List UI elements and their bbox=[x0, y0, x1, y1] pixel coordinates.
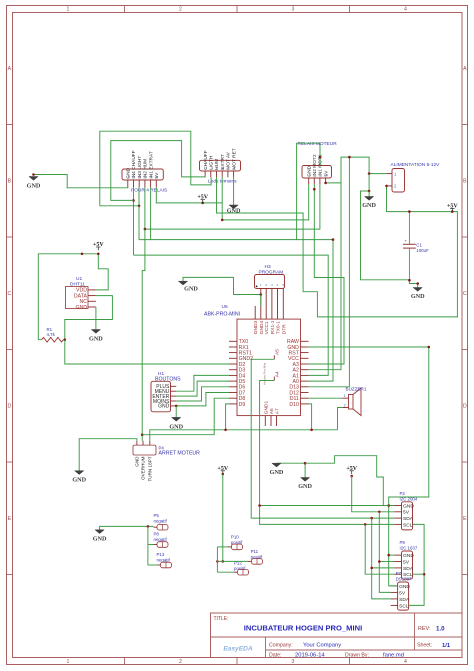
wire P4 TURN long run east bbox=[150, 430, 338, 441]
wire DHT11 GND down bbox=[95, 307, 97, 330]
svg-text:4: 4 bbox=[404, 659, 407, 665]
svg-text:Drawn By:: Drawn By: bbox=[345, 652, 369, 658]
junction gnd pair bbox=[304, 462, 307, 465]
svg-text:Arduino Pro Mini: Arduino Pro Mini bbox=[263, 362, 267, 385]
wire IN3 column down bbox=[138, 187, 140, 239]
svg-text:5V: 5V bbox=[403, 559, 410, 565]
svg-text:E: E bbox=[8, 516, 12, 522]
wire P4 OVERHUM to U5 D8 bbox=[142, 398, 229, 435]
svg-text:A6: A6 bbox=[269, 408, 275, 414]
junction +5V right bbox=[451, 210, 454, 213]
junction 5V branch bbox=[378, 511, 381, 514]
wire U5 A5 to SDA bus bbox=[251, 359, 394, 518]
svg-text:B: B bbox=[463, 179, 467, 185]
svg-text:A: A bbox=[8, 66, 12, 72]
wire gnd bus to P2 GND bbox=[260, 505, 395, 507]
svg-text:MOT AV: MOT AV bbox=[226, 151, 232, 169]
svg-text:GND3: GND3 bbox=[253, 321, 259, 335]
svg-text:Sheet:: Sheet: bbox=[417, 643, 432, 649]
svg-text:P13: P13 bbox=[157, 552, 165, 557]
svg-text:GND: GND bbox=[89, 336, 103, 343]
wire IN3 bus east then south to U5 A0 bbox=[139, 240, 333, 382]
ground symbol P4 bbox=[75, 471, 84, 475]
wire R1 to U5 D2 bbox=[65, 340, 229, 364]
junction H3 pin1 bbox=[260, 293, 263, 296]
junction D10 branch bbox=[310, 429, 313, 432]
wire positif riser bbox=[216, 547, 218, 572]
svg-text:P10: P10 bbox=[231, 535, 239, 540]
svg-text:P7: P7 bbox=[396, 571, 402, 576]
svg-text:GND: GND bbox=[135, 456, 140, 467]
svg-text:D: D bbox=[8, 404, 12, 410]
svg-text:LIGTH: LIGTH bbox=[209, 155, 215, 170]
junction relais IN2 bbox=[313, 188, 316, 191]
svg-text:2: 2 bbox=[344, 404, 346, 408]
wire gnd pair feed staircase bbox=[305, 456, 389, 506]
svg-text:D: D bbox=[463, 404, 467, 410]
wire H1 MENU stair to U5 D4 bbox=[176, 375, 229, 391]
header H3 PROGRAM bbox=[255, 275, 285, 289]
wire 5V pin to +5V rail bbox=[156, 187, 222, 203]
ground symbol H3 bbox=[178, 281, 187, 285]
connector ALIMENTATION 5-12V P1 bbox=[392, 169, 405, 193]
svg-text:I2C 1637: I2C 1637 bbox=[400, 546, 418, 551]
svg-text:D10: D10 bbox=[289, 402, 299, 408]
svg-text:A: A bbox=[463, 66, 467, 72]
svg-text:CHAUFF: CHAUFF bbox=[203, 150, 209, 170]
wire IN1 column down to bus bbox=[150, 187, 152, 239]
svg-text:GND: GND bbox=[399, 584, 410, 590]
junction alim pin2 bbox=[385, 185, 388, 188]
wire IN2 column down to relais IN1 bbox=[145, 184, 320, 229]
MCU U5 ABK-PRO-MINI Arduino Pro Mini bbox=[237, 319, 301, 416]
junction +5V leds bbox=[201, 202, 204, 205]
junction at GND top-left bbox=[32, 173, 35, 176]
ground symbol DHT11 bbox=[91, 330, 100, 334]
svg-text:GND: GND bbox=[72, 477, 86, 484]
svg-text:GND4: GND4 bbox=[259, 321, 265, 335]
wire GND to POUR4RELAIS pin1 bbox=[34, 175, 128, 188]
wire SDA south to P9 P7 bbox=[372, 518, 391, 599]
svg-text:+: + bbox=[405, 239, 408, 244]
svg-text:H3: H3 bbox=[265, 264, 271, 270]
wire SCL east loop P2 to P9 P7 bbox=[409, 524, 425, 605]
svg-text:negatif: negatif bbox=[154, 519, 168, 524]
junction SDA P9 bbox=[370, 567, 373, 570]
svg-text:1: 1 bbox=[344, 394, 346, 398]
svg-text:fane.md: fane.md bbox=[383, 652, 404, 658]
connector POUR 4 RELAIS bbox=[122, 169, 163, 180]
wire MOT RET to ground bbox=[233, 177, 235, 205]
svg-text:GND: GND bbox=[75, 305, 87, 311]
svg-text:5V: 5V bbox=[403, 510, 410, 516]
wire IN2 continue south jog to P4 OVERHUM bbox=[142, 229, 145, 441]
svg-text:4.7k: 4.7k bbox=[47, 332, 56, 337]
resistor R1 4.7k bbox=[42, 337, 64, 342]
U5 top pins bbox=[254, 306, 256, 319]
wire bundle to U5 D13 bbox=[309, 157, 350, 387]
svg-text:E: E bbox=[463, 516, 467, 522]
wire bundle to U5 A2 bbox=[309, 183, 342, 370]
junction bundle top bbox=[348, 156, 351, 159]
svg-text:C: C bbox=[463, 291, 467, 297]
wire H1 GND stair to U5 D7 bbox=[176, 393, 229, 406]
wire negatif riser bbox=[147, 526, 149, 565]
svg-text:2: 2 bbox=[179, 659, 182, 665]
junction gnd branch bbox=[416, 282, 419, 285]
svg-text:DS1307: DS1307 bbox=[396, 577, 412, 582]
svg-text:negatif: negatif bbox=[157, 558, 171, 563]
buzzer BUZZER1 bbox=[349, 395, 354, 410]
svg-text:GND: GND bbox=[169, 423, 183, 430]
junction P4 overhum branch bbox=[141, 433, 144, 436]
junction bus bbox=[332, 238, 335, 241]
junction +5V bottom bbox=[350, 475, 353, 478]
svg-text:GND: GND bbox=[184, 286, 198, 293]
junction gnd row tee bbox=[258, 504, 261, 507]
wire ALIM pin1 gnd branch bbox=[361, 174, 410, 280]
svg-text:U5: U5 bbox=[222, 304, 228, 310]
wire +5V bottom to P2 5V bbox=[352, 476, 395, 512]
svg-text:P5: P5 bbox=[154, 513, 160, 518]
connector P9 I2C 1637 bbox=[402, 551, 413, 579]
svg-text:IN1 EXTRAT: IN1 EXTRAT bbox=[148, 151, 154, 178]
junction P9 gnd bbox=[387, 554, 390, 557]
wire DHT11 DATA loop to R1 bbox=[65, 296, 113, 340]
svg-text:DTR: DTR bbox=[281, 324, 287, 334]
connector Leds temoins bbox=[200, 160, 241, 171]
wire branch up to U5 D9 bbox=[226, 404, 229, 430]
svg-text:D9: D9 bbox=[239, 402, 246, 408]
svg-text:GND: GND bbox=[227, 208, 241, 215]
wire EXTRT column down to relais GND bbox=[222, 177, 309, 220]
connector P4 ARRET MOTEUR bbox=[133, 445, 156, 455]
svg-text:IN2 HUM: IN2 HUM bbox=[143, 159, 149, 179]
svg-text:GND: GND bbox=[93, 536, 107, 543]
connector P2 I2C 2004 bbox=[402, 502, 413, 530]
svg-text:TURN 18PT: TURN 18PT bbox=[148, 456, 153, 481]
svg-text:P4: P4 bbox=[159, 445, 165, 450]
buzzer pin 2 bbox=[342, 407, 348, 409]
junction gnd bus bbox=[428, 346, 431, 349]
svg-text:negatif: negatif bbox=[154, 537, 168, 542]
junction P2 gnd bbox=[387, 504, 390, 507]
ground symbol under leds bbox=[229, 205, 238, 209]
junction 5V P9 bbox=[378, 560, 381, 563]
svg-text:EasyEDA: EasyEDA bbox=[223, 646, 253, 653]
wire H1 MOINS stair to U5 D6 bbox=[176, 387, 229, 401]
svg-text:IN2 MOT2: IN2 MOT2 bbox=[312, 154, 318, 176]
svg-text:100uF: 100uF bbox=[416, 248, 429, 253]
wire gnd pair middle bottom bbox=[277, 463, 306, 477]
wire H1 gnd symbol bbox=[175, 406, 177, 418]
capacitor C1 100uF bbox=[408, 212, 410, 245]
ground symbol mid1 bbox=[272, 463, 281, 467]
svg-text:SDA: SDA bbox=[403, 566, 414, 572]
wire IN4 run east to U5 A1 bbox=[134, 255, 329, 375]
svg-text:4: 4 bbox=[404, 7, 407, 13]
svg-text:GND: GND bbox=[126, 167, 132, 178]
svg-text:5V: 5V bbox=[154, 172, 160, 179]
junction D9 branch bbox=[224, 429, 227, 432]
wire U5 D11 to buzzer pin1 bbox=[309, 397, 343, 399]
junction negatif bbox=[147, 525, 150, 528]
junction IN2 bbox=[144, 228, 147, 231]
svg-text:P9: P9 bbox=[400, 540, 406, 545]
svg-text:GND: GND bbox=[306, 165, 312, 176]
svg-text:POUR 4 RELAIS: POUR 4 RELAIS bbox=[131, 188, 167, 194]
U5 mid pin A4 bbox=[273, 377, 275, 381]
svg-text:GND: GND bbox=[27, 183, 41, 190]
svg-text:EXTRT: EXTRT bbox=[220, 154, 226, 170]
svg-text:GND: GND bbox=[411, 293, 425, 300]
wire to P13 bbox=[148, 564, 157, 566]
wire P4 GND west to ground bbox=[79, 439, 137, 471]
pin 1 bbox=[386, 173, 392, 175]
svg-text:P11: P11 bbox=[251, 549, 259, 554]
ground symbol top-left bbox=[29, 177, 38, 181]
svg-text:ARRET MOTEUR: ARRET MOTEUR bbox=[159, 451, 201, 457]
svg-text:GND1: GND1 bbox=[263, 401, 269, 415]
svg-text:ABK-PRO-MINI: ABK-PRO-MINI bbox=[204, 312, 240, 318]
junction IN4 bbox=[132, 199, 135, 202]
wire gnd to negatif group bbox=[100, 526, 154, 529]
wire C1 bottom to ground bbox=[409, 280, 417, 287]
svg-text:GND: GND bbox=[362, 202, 376, 209]
svg-text:SDA: SDA bbox=[399, 597, 410, 603]
wire SCL east to P9 bbox=[413, 573, 425, 575]
title block bbox=[211, 613, 463, 658]
junction on +5V rail bbox=[81, 253, 84, 256]
svg-text:ALIMENTATION 5-12V: ALIMENTATION 5-12V bbox=[391, 162, 441, 168]
junction +5V mid low bbox=[222, 473, 225, 476]
wire H1 ENTER stair to U5 D5 bbox=[176, 381, 229, 396]
svg-text:REV:: REV: bbox=[418, 626, 430, 632]
svg-text:OVERHUM: OVERHUM bbox=[141, 456, 146, 480]
svg-text:1/1: 1/1 bbox=[442, 643, 451, 649]
svg-text:3: 3 bbox=[292, 659, 295, 665]
junction relais 5V bbox=[324, 182, 327, 185]
wire U5 D10 down to run bbox=[309, 404, 312, 430]
svg-text:5V: 5V bbox=[399, 590, 406, 596]
wire to P11 bbox=[217, 560, 248, 562]
wire 5V south to P9 P7 bbox=[379, 512, 390, 593]
svg-text:U1: U1 bbox=[76, 276, 82, 282]
svg-text:B: B bbox=[8, 179, 12, 185]
svg-text:1.0: 1.0 bbox=[436, 626, 445, 633]
buzzer pin 1 bbox=[342, 397, 348, 399]
wire HUM south-east long run to +5V right bbox=[217, 177, 458, 317]
wire U5 A4 to SCL bus bbox=[260, 381, 395, 525]
connector H1 BOUTONS bbox=[151, 381, 171, 412]
wire relais 5V to ALIM pin1 bbox=[326, 157, 387, 184]
wire H3 pin1 down to U5 GND4 bbox=[260, 295, 262, 307]
svg-text:GND: GND bbox=[403, 553, 414, 559]
junction positif 1 bbox=[216, 560, 219, 563]
wire to P10 bbox=[217, 546, 228, 548]
svg-text:C: C bbox=[8, 291, 12, 297]
U5 left pins bbox=[229, 340, 237, 342]
svg-text:5V: 5V bbox=[323, 170, 329, 177]
junction IN3 bbox=[138, 205, 141, 208]
connector P7 DS1307 bbox=[398, 582, 409, 610]
svg-text:DHT11: DHT11 bbox=[70, 281, 85, 287]
svg-text:1: 1 bbox=[67, 7, 70, 13]
wire U5 GND right to gnd bus bbox=[309, 347, 429, 586]
junction H1 gnd bbox=[175, 405, 178, 408]
svg-text:Date:: Date: bbox=[269, 652, 281, 658]
svg-text:Your Company: Your Company bbox=[303, 643, 341, 649]
svg-text:MOT RET: MOT RET bbox=[231, 148, 237, 170]
svg-text:RX1-1: RX1-1 bbox=[270, 320, 276, 334]
junction alim gnd bbox=[368, 190, 371, 193]
junction R1 right bbox=[64, 338, 67, 341]
svg-text:P8: P8 bbox=[154, 532, 160, 537]
svg-text:3: 3 bbox=[292, 7, 295, 13]
wire 5V to P9 bbox=[379, 561, 394, 563]
svg-text:SCL: SCL bbox=[399, 603, 409, 609]
wire gnd bus to P9 GND bbox=[389, 554, 395, 556]
svg-text:GND: GND bbox=[270, 469, 284, 476]
connector RELAIS MOTEUR bbox=[302, 166, 332, 179]
junction C1 top bbox=[408, 210, 411, 213]
ground symbol H1 bbox=[172, 417, 181, 421]
U5 right pins bbox=[301, 340, 309, 342]
ground symbol under alim bbox=[368, 191, 370, 197]
wire nested loop to LIGTH bbox=[100, 131, 211, 206]
wire to P12 bbox=[217, 571, 234, 573]
junction alim pin1 tee bbox=[368, 172, 371, 175]
wire IN4 column down bbox=[133, 187, 135, 255]
svg-text:HUM: HUM bbox=[214, 159, 220, 170]
wire ALIM pin2 to +5V bbox=[386, 186, 452, 212]
svg-text:GND: GND bbox=[158, 404, 170, 410]
svg-text:A7: A7 bbox=[275, 408, 281, 414]
svg-text:VCC1: VCC1 bbox=[264, 321, 270, 334]
svg-text:SCL: SCL bbox=[403, 522, 413, 528]
svg-text:2019-06-14: 2019-06-14 bbox=[295, 652, 325, 658]
svg-text:BOUTONS: BOUTONS bbox=[155, 377, 181, 383]
svg-text:PROGRAM: PROGRAM bbox=[259, 270, 284, 276]
ground symbol below C1 bbox=[413, 288, 422, 292]
wire nested loop to CHAUFF bbox=[111, 141, 205, 201]
svg-text:GND: GND bbox=[298, 483, 312, 490]
U5 bottom pins bbox=[264, 416, 266, 426]
svg-text:IN3 LIGHT: IN3 LIGHT bbox=[137, 156, 143, 179]
svg-text:C1: C1 bbox=[416, 243, 422, 248]
svg-text:RELAIS MOTEUR: RELAIS MOTEUR bbox=[298, 141, 338, 147]
junction SCL east bbox=[423, 573, 426, 576]
junction positif 2 bbox=[222, 560, 225, 563]
wire +5V down to positif group bbox=[222, 474, 224, 561]
U5 mid pin A5 bbox=[273, 355, 275, 359]
svg-text:TX0-1: TX0-1 bbox=[276, 321, 282, 334]
svg-text:2: 2 bbox=[179, 7, 182, 13]
svg-text:Company:: Company: bbox=[269, 643, 293, 649]
wire to P8neg bbox=[148, 544, 154, 546]
ground symbol negatif bbox=[95, 530, 104, 534]
wire +5V rail west to R1 bbox=[38, 254, 98, 340]
svg-text:A5: A5 bbox=[274, 349, 280, 355]
svg-text:IN4 CHAUFF: IN4 CHAUFF bbox=[131, 150, 137, 178]
wire buzzer pin2 down to run bbox=[338, 408, 343, 430]
wire +5V to DHT11 VDD hook bbox=[96, 254, 108, 290]
wire relais IN2 to U5 A3 bbox=[309, 184, 345, 364]
pin 2 bbox=[386, 185, 392, 187]
junction relais top bbox=[319, 156, 322, 159]
svg-text:TITLE:: TITLE: bbox=[214, 616, 229, 622]
junction EXTRT bbox=[221, 219, 224, 222]
sensor U1 DHT11 bbox=[66, 287, 89, 309]
svg-text:positif: positif bbox=[234, 566, 246, 571]
svg-text:A4: A4 bbox=[274, 371, 280, 377]
junction SDA branch bbox=[370, 517, 373, 520]
wire over relais moteur text bbox=[297, 143, 320, 239]
junction SCL branch bbox=[364, 523, 367, 526]
wire SDA to P9 bbox=[372, 567, 395, 569]
svg-text:SDA: SDA bbox=[403, 516, 414, 522]
svg-text:GND: GND bbox=[403, 503, 414, 509]
junction C1 bottom bbox=[408, 279, 411, 282]
wire SCL south to P9 SCL bbox=[365, 524, 394, 574]
svg-text:P2: P2 bbox=[400, 491, 406, 496]
svg-text:INCUBATEUR HOGEN PRO_MINI: INCUBATEUR HOGEN PRO_MINI bbox=[244, 624, 362, 633]
svg-text:1: 1 bbox=[67, 659, 70, 665]
wire gnd to H3 and U5 GND4 bbox=[183, 277, 261, 294]
ground symbol mid2 bbox=[301, 478, 310, 482]
